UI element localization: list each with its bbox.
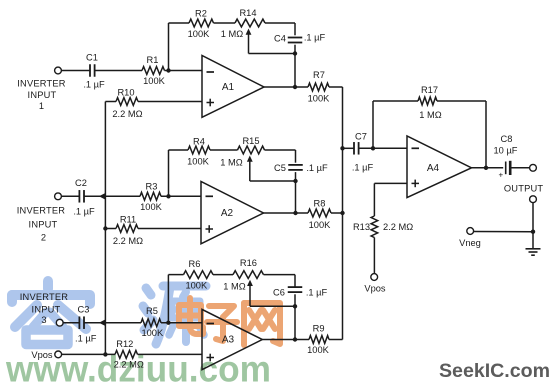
wire C8 to output terminal <box>512 167 530 169</box>
wire C5 down to A2 output node <box>295 172 297 213</box>
capacitor C2 .1uF <box>78 190 80 203</box>
svg-text:.1 µF: .1 µF <box>306 288 328 298</box>
wire junction up to R17 rail <box>372 101 374 148</box>
svg-text:R10: R10 <box>117 87 134 97</box>
svg-text:C6: C6 <box>273 288 285 298</box>
svg-text:.1 µF: .1 µF <box>75 334 97 344</box>
svg-text:R15: R15 <box>242 136 259 146</box>
resistor R8 100K <box>308 209 331 217</box>
svg-text:1 MΩ: 1 MΩ <box>221 29 243 39</box>
resistor R13 2.2 Mohm (vertical) <box>371 216 378 238</box>
svg-text:R8: R8 <box>314 198 326 208</box>
node: bias arrow junction stage 3 <box>99 319 106 326</box>
node: bus junction R8 <box>340 211 344 215</box>
svg-text:R7: R7 <box>313 70 325 80</box>
wire down to R13 <box>373 183 375 216</box>
wire C1 to R1 <box>95 70 142 72</box>
wire bus to C7 <box>343 147 355 149</box>
capacitor C7 .1uF <box>353 142 355 155</box>
svg-text:.1 µF: .1 µF <box>83 80 105 90</box>
svg-text:100K: 100K <box>308 94 331 104</box>
wire input2 to C2 <box>61 195 79 197</box>
wire rail 2 right segment and corner down <box>265 149 296 151</box>
svg-text:Vpos: Vpos <box>31 350 53 360</box>
svg-text:C3: C3 <box>78 304 90 314</box>
svg-text:+: + <box>498 171 503 180</box>
svg-text:R11: R11 <box>120 214 136 224</box>
svg-text:INPUT: INPUT <box>28 90 57 100</box>
svg-text:C7: C7 <box>355 132 367 142</box>
svg-text:INVERTER: INVERTER <box>17 206 66 216</box>
svg-text:R16: R16 <box>240 258 257 268</box>
svg-text:100K: 100K <box>188 29 211 39</box>
node: A2 output junction <box>293 211 297 215</box>
svg-text:INVERTER: INVERTER <box>17 79 66 89</box>
svg-text:INPUT: INPUT <box>29 219 58 229</box>
input terminal 3 <box>56 319 63 326</box>
svg-text:100K: 100K <box>185 280 208 290</box>
svg-text:100K: 100K <box>307 345 330 355</box>
capacitor C1 .1uF <box>89 64 91 77</box>
svg-text:C2: C2 <box>75 178 87 188</box>
svg-text:1 MΩ: 1 MΩ <box>220 157 242 167</box>
resistor R6 100K <box>184 271 214 279</box>
terminal Vpos (bottom) <box>371 274 378 281</box>
node: feedback tap junction stage 3 <box>166 321 170 325</box>
resistor R1 100K <box>142 67 165 75</box>
svg-text:A4: A4 <box>427 163 440 174</box>
wire Vpos to R12 <box>61 353 115 355</box>
terminal Vpos (left) <box>55 351 62 358</box>
wire input3 to C3 <box>63 322 80 324</box>
capacitor C5 .1uF <box>288 164 303 166</box>
wire feedback rail 3 left segment <box>168 274 183 276</box>
svg-text:.1 µF: .1 µF <box>352 162 374 172</box>
node: Vneg wire junction <box>531 230 535 234</box>
wire R17 rail left segment <box>373 100 418 102</box>
node: feedback tap junction stage 2 <box>166 194 170 198</box>
svg-text:R14: R14 <box>239 8 256 18</box>
wire A3 output <box>262 339 309 341</box>
capacitor C6 .1uF <box>288 286 303 288</box>
node: C7 right junction <box>371 146 375 150</box>
node: feedback tap junction stage 1 <box>166 68 170 72</box>
svg-text:R2: R2 <box>195 9 207 19</box>
wire R14 wiper to C4 bottom node <box>249 53 296 55</box>
svg-text:C5: C5 <box>274 163 286 173</box>
svg-text:INPUT: INPUT <box>32 304 61 314</box>
node: bias bus to Vpos line junction <box>103 352 107 356</box>
svg-text:R3: R3 <box>146 181 158 191</box>
svg-text:2.2 MΩ: 2.2 MΩ <box>112 109 142 119</box>
svg-text:R4: R4 <box>193 137 205 147</box>
label INVERTER INPUT 1 <box>17 79 66 111</box>
resistor R17 1 Mohm <box>418 97 437 105</box>
svg-text:2.2 MΩ: 2.2 MΩ <box>383 222 413 232</box>
svg-text:INVERTER: INVERTER <box>20 292 69 302</box>
svg-text:1: 1 <box>39 101 44 111</box>
wire output ground down <box>532 202 534 248</box>
label INVERTER INPUT 3 <box>20 292 69 325</box>
terminal Vneg <box>467 228 474 235</box>
resistor R9 100K <box>309 336 329 344</box>
wire C6 down to A3 output node <box>294 294 296 339</box>
watermark chinese char 1 (blue) <box>12 281 90 345</box>
wire R8 to summing bus <box>331 212 343 214</box>
wire junction up to feedback rail 1 <box>168 23 170 71</box>
wire junction up to feedback rail 3 <box>167 275 169 323</box>
wire R16 wiper to C6 bottom node <box>250 305 295 307</box>
wire feedback rail 1 left segment <box>169 22 190 24</box>
wire A2 output <box>264 212 309 214</box>
wire Vneg to ground node <box>473 231 533 233</box>
svg-text:R17: R17 <box>421 85 438 95</box>
svg-text:1 MΩ: 1 MΩ <box>223 282 245 292</box>
op-amp A3 <box>202 309 262 369</box>
node: A4 output junction <box>484 166 488 170</box>
ground symbol <box>526 248 541 250</box>
input terminal 2 <box>55 193 62 200</box>
resistor R7 100K <box>308 83 329 91</box>
node: wiper junction stage 3 <box>293 304 297 308</box>
wire rail 3 right segment and corner down <box>264 274 296 276</box>
svg-text:3: 3 <box>41 315 46 325</box>
svg-text:R5: R5 <box>146 306 158 316</box>
R14 wiper arrow <box>246 29 252 35</box>
wire R2 to R14 <box>214 22 236 24</box>
watermark chinese chars (orange) <box>179 298 280 345</box>
capacitor C3 .1uF <box>78 316 80 329</box>
wire R4 to R15 <box>210 149 238 151</box>
svg-text:R9: R9 <box>313 323 325 333</box>
svg-text:OUTPUT: OUTPUT <box>504 183 544 193</box>
resistor R4 100K <box>188 146 210 154</box>
svg-text:R6: R6 <box>189 259 201 269</box>
label INVERTER INPUT 2 <box>17 206 66 243</box>
output terminal <box>530 164 537 171</box>
potentiometer R15 1 Mohm <box>238 146 265 154</box>
node: A1 output junction <box>293 85 297 89</box>
svg-text:A3: A3 <box>222 335 235 346</box>
resistor R2 100K <box>189 19 214 27</box>
op-amp A1 <box>202 56 264 118</box>
wire summing bus vertical <box>342 87 344 340</box>
svg-text:R12: R12 <box>116 339 133 349</box>
wire A1 output <box>264 86 308 88</box>
svg-text:Vneg: Vneg <box>459 238 481 248</box>
svg-text:R1: R1 <box>147 55 159 65</box>
wire A4 noninverting input <box>374 182 407 184</box>
svg-text:A1: A1 <box>222 82 235 93</box>
potentiometer R14 1 Mohm <box>235 19 265 27</box>
op-amp A4 <box>407 136 472 198</box>
capacitor C4 .1uF <box>288 37 303 39</box>
svg-text:100K: 100K <box>140 202 163 212</box>
svg-text:C4: C4 <box>274 34 286 44</box>
R15 wiper arrow <box>247 156 253 162</box>
svg-text:100K: 100K <box>143 76 166 86</box>
svg-text:2.2 MΩ: 2.2 MΩ <box>114 359 144 369</box>
op-amp A2 <box>201 182 264 244</box>
svg-text:10 µF: 10 µF <box>494 146 518 156</box>
wire C4 down to A1 output node <box>294 45 296 87</box>
resistor R5 100K <box>141 319 161 327</box>
svg-text:1 MΩ: 1 MΩ <box>419 110 441 120</box>
input terminal 1 <box>55 67 62 74</box>
potentiometer R16 1 Mohm <box>233 271 264 279</box>
svg-text:2: 2 <box>41 233 46 243</box>
wire rail 1 right segment and corner down <box>265 22 295 24</box>
wire junction up to feedback rail 2 <box>168 150 170 196</box>
R16 wiper arrow <box>247 280 253 286</box>
wire R1 to A1 inverting input <box>165 70 203 72</box>
wire R13 to Vpos terminal <box>373 238 375 274</box>
wire input1 to C1 <box>61 70 90 72</box>
resistor R11 2.2 Mohm <box>103 226 107 230</box>
node: bus to C7 junction <box>340 146 344 150</box>
wire C2 to R3 (through bias bus arrow) <box>84 195 140 197</box>
wire A4 output <box>472 167 504 169</box>
node: bias arrow junction stage 2 <box>99 193 106 200</box>
svg-text:2.2 MΩ: 2.2 MΩ <box>113 236 143 246</box>
svg-text:Vpos: Vpos <box>364 283 386 293</box>
svg-text:100K: 100K <box>187 156 210 166</box>
resistor R12 2.2 Mohm <box>115 351 138 359</box>
node: wiper junction stage 1 <box>293 51 297 55</box>
resistor R3 100K <box>140 192 161 200</box>
wire R6 to R16 <box>213 274 233 276</box>
wire R17 rail right segment and corner down <box>437 100 486 102</box>
wire bias bus vertical <box>104 102 106 355</box>
wire R9 to summing bus <box>329 339 343 341</box>
svg-text:.1 µF: .1 µF <box>73 206 95 216</box>
node: A3 output junction <box>293 337 297 341</box>
svg-text:R13: R13 <box>353 222 370 232</box>
wire R3 to A2 inverting input <box>161 195 201 197</box>
svg-text:.1 µF: .1 µF <box>306 163 328 173</box>
wire R5 to A3 inverting input <box>161 322 202 324</box>
svg-text:100K: 100K <box>309 220 332 230</box>
watermark chinese char 2 (blue) <box>143 286 206 344</box>
node: wiper junction stage 2 <box>293 179 297 183</box>
wire R15 wiper to C5 bottom node <box>250 180 296 182</box>
wire R7 to summing bus <box>329 86 343 88</box>
resistor R10 2.2 Mohm <box>105 101 116 103</box>
svg-text:A2: A2 <box>221 208 234 219</box>
svg-text:C1: C1 <box>86 53 98 63</box>
wire C7 to A4 inverting input <box>359 147 407 149</box>
capacitor C8 10uF (polarized) <box>505 162 507 175</box>
output ground terminal <box>530 196 537 203</box>
wire feedback rail 2 left segment <box>169 149 189 151</box>
svg-text:SeekIC.com: SeekIC.com <box>439 360 550 382</box>
svg-text:.1 µF: .1 µF <box>304 33 326 43</box>
svg-text:100K: 100K <box>141 328 164 338</box>
svg-text:C8: C8 <box>501 134 513 144</box>
wire C3 to R5 (through bias bus arrow) <box>84 322 141 324</box>
